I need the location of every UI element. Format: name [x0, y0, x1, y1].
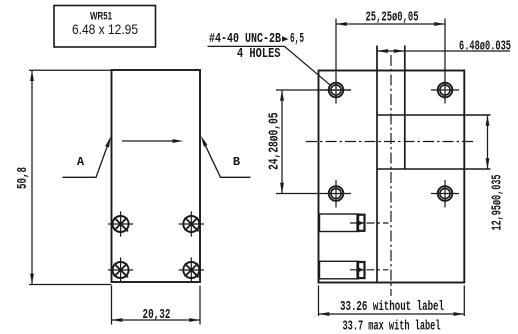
thread callout leader [208, 46, 331, 85]
captive screw lower body [320, 261, 359, 279]
right view threaded hole bottom-left [329, 186, 344, 201]
svg-text:4 HOLES: 4 HOLES [237, 47, 281, 62]
leader B [202, 139, 250, 177]
vertical centerline [390, 55, 392, 296]
svg-text:50,8: 50,8 [16, 167, 31, 189]
svg-text:12,95ø0,035: 12,95ø0,035 [491, 175, 506, 231]
svg-text:25,25ø0,05: 25,25ø0,05 [366, 11, 419, 26]
dimension 24,28 [276, 90, 351, 194]
captive screw lower head [358, 262, 365, 278]
right view threaded hole top-left [329, 83, 344, 98]
dimension 25,25 [336, 19, 445, 104]
left view hole bottom-right [183, 262, 199, 278]
right view aperture bottom line [377, 168, 491, 170]
title box [54, 6, 156, 48]
svg-text:20,32: 20,32 [143, 308, 171, 323]
svg-text:6.48 x 12.95: 6.48 x 12.95 [72, 21, 138, 37]
right view aperture line right [404, 46, 406, 170]
thread depth symbol [282, 36, 289, 42]
right view threaded hole top-right [438, 83, 453, 98]
left view propagation arrow [122, 140, 176, 142]
right view outline [319, 71, 465, 283]
svg-text:33.26 without label: 33.26 without label [340, 300, 444, 315]
left view hole top-left [113, 216, 129, 232]
captive screw upper head [358, 215, 365, 231]
right view threaded hole bottom-right [438, 186, 453, 201]
svg-text:6.48ø0.035: 6.48ø0.035 [459, 40, 511, 55]
svg-text:24,28ø0,05: 24,28ø0,05 [267, 113, 282, 171]
captive screw lower mark [358, 267, 365, 272]
captive screw upper centerline [350, 222, 389, 224]
right view aperture line left [376, 46, 378, 283]
captive screw upper body [320, 214, 359, 232]
svg-text:6,5: 6,5 [290, 32, 304, 47]
dimension 20,32 [112, 286, 201, 325]
dimension 33.26 [319, 286, 465, 317]
leader A [63, 140, 110, 177]
svg-text:#4-40 UNC-2B: #4-40 UNC-2B [209, 32, 281, 47]
right view aperture top line [377, 114, 491, 116]
left view hole top-right [183, 216, 199, 232]
svg-text:A: A [77, 155, 85, 169]
left view outline [112, 70, 201, 282]
captive screw upper mark [358, 220, 365, 225]
svg-text:B: B [233, 155, 240, 169]
left view hole bottom-left [113, 262, 129, 278]
dimension 6.48 [377, 50, 510, 52]
dimension 12,95 [487, 115, 489, 169]
horizontal centerline [306, 141, 476, 143]
svg-text:33.7 max with label: 33.7 max with label [343, 320, 441, 334]
dimension 50,8 [29, 70, 112, 284]
captive screw lower centerline [350, 269, 389, 271]
